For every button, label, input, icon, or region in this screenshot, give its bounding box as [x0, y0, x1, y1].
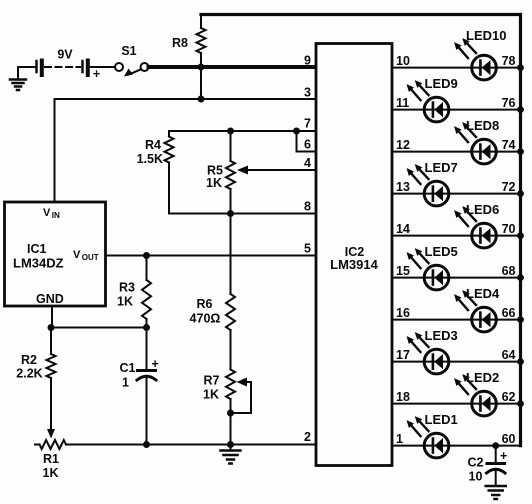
svg-text:70: 70	[502, 222, 516, 236]
junction LED bus row 62	[517, 400, 524, 407]
wire pin 10 LED row	[392, 67, 521, 69]
svg-text:LED4: LED4	[466, 286, 500, 301]
svg-text:C1: C1	[120, 361, 136, 375]
led LED4	[454, 286, 500, 332]
wire pin 12 LED row	[392, 151, 521, 153]
svg-text:LED1: LED1	[425, 412, 458, 427]
svg-text:V: V	[73, 249, 81, 261]
wire pin 13 LED row	[392, 193, 521, 195]
potentiometer R1 1K	[35, 440, 66, 480]
led LED8	[454, 118, 499, 164]
wire pin 18 LED row	[392, 403, 521, 405]
svg-text:1: 1	[122, 376, 129, 390]
svg-text:1.5K: 1.5K	[137, 152, 163, 166]
junction LED bus row 66	[517, 316, 524, 323]
svg-text:6: 6	[304, 138, 311, 152]
wire GND node line	[51, 327, 147, 329]
wire R5 wiper to pin 4	[237, 166, 316, 175]
svg-text:IC1: IC1	[27, 242, 47, 256]
svg-text:LED2: LED2	[466, 370, 499, 385]
switch S1	[115, 44, 149, 77]
svg-text:R3: R3	[119, 281, 135, 295]
junction pin3 line	[198, 96, 205, 103]
wire pin 16 LED row	[392, 319, 521, 321]
wire R2 wiper arrow to R1	[47, 429, 55, 439]
op-amp IC1 LM34DZ sensor box	[5, 202, 106, 306]
svg-text:LED8: LED8	[466, 118, 499, 133]
svg-text:2: 2	[304, 430, 311, 444]
svg-text:LED3: LED3	[425, 328, 458, 343]
led LED10	[454, 28, 506, 80]
resistor R2 2.2K	[16, 328, 55, 431]
led LED3	[407, 328, 458, 374]
svg-text:15: 15	[396, 264, 410, 278]
svg-text:12: 12	[396, 138, 410, 152]
junction LED bus row 78	[517, 64, 524, 71]
svg-text:16: 16	[396, 306, 410, 320]
led LED5	[407, 244, 458, 290]
wire bottom line to pin 2	[66, 444, 316, 446]
svg-text:60: 60	[502, 432, 516, 446]
led LED7	[407, 160, 458, 206]
svg-text:10: 10	[396, 54, 410, 68]
junction R5/R6 pin 8	[227, 210, 234, 217]
svg-text:LM34DZ: LM34DZ	[13, 256, 64, 271]
svg-text:68: 68	[502, 264, 516, 278]
svg-text:IN: IN	[52, 211, 60, 220]
ground (pin 2 / R7)	[221, 445, 241, 464]
svg-text:2.2K: 2.2K	[16, 367, 42, 381]
svg-text:LED10: LED10	[466, 28, 506, 43]
led LED2	[454, 370, 499, 416]
wire switch to IC2 pin 9 (V+)	[149, 65, 317, 69]
svg-text:1K: 1K	[203, 388, 219, 402]
wire pin 3 line	[55, 99, 317, 202]
op-amp IC2 LM3914 box	[316, 44, 392, 466]
svg-text:9V: 9V	[57, 48, 73, 62]
svg-text:LED5: LED5	[425, 244, 458, 259]
junction R7 bottom line	[227, 441, 234, 448]
wire pin 6 branch	[297, 131, 317, 152]
junction pin 6/7 branch	[293, 128, 300, 135]
resistor R4 1.5K	[137, 131, 174, 214]
wire pin 17 LED row	[392, 361, 521, 363]
svg-text:+: +	[152, 357, 159, 371]
svg-text:76: 76	[502, 96, 516, 110]
ground (battery negative)	[10, 67, 26, 90]
svg-text:R7: R7	[204, 374, 220, 388]
svg-text:R2: R2	[21, 353, 37, 367]
wire ground to battery	[18, 66, 35, 68]
junction R2 top	[48, 324, 55, 331]
wire IC1 GND down	[51, 306, 53, 328]
wire junction down to pin3 line	[200, 67, 202, 99]
wire pin 11 LED row	[392, 109, 521, 111]
svg-text:14: 14	[396, 222, 410, 236]
wire VOUT to pin 5	[106, 255, 317, 257]
wire battery to switch	[90, 66, 115, 68]
junction LED bus row 74	[517, 148, 524, 155]
junction R7 wiper	[227, 410, 234, 417]
svg-text:17: 17	[396, 348, 410, 362]
wire top rail	[201, 15, 521, 446]
capacitor C1 1 (electrolytic)	[120, 328, 159, 445]
svg-text:3: 3	[304, 86, 311, 100]
wire pin 14 LED row	[392, 235, 521, 237]
resistor R3 1K	[117, 256, 151, 328]
svg-text:R1: R1	[43, 452, 59, 466]
potentiometer R7 1K	[203, 370, 251, 445]
svg-text:LED9: LED9	[425, 76, 458, 91]
potentiometer R5 1K	[206, 131, 235, 214]
svg-text:V: V	[43, 207, 51, 219]
svg-text:74: 74	[502, 138, 516, 152]
svg-text:470Ω: 470Ω	[190, 312, 221, 326]
resistor R8	[172, 15, 205, 68]
svg-text:62: 62	[502, 390, 516, 404]
svg-text:1K: 1K	[43, 466, 59, 480]
svg-text:GND: GND	[36, 292, 64, 306]
svg-text:R4: R4	[145, 138, 161, 152]
svg-text:9: 9	[304, 54, 311, 68]
svg-text:4: 4	[304, 156, 311, 170]
wire pin 15 LED row	[392, 277, 521, 279]
ground (C2)	[486, 486, 506, 499]
junction LED bus row 64	[517, 358, 524, 365]
wire pin 7 line	[169, 130, 316, 132]
svg-text:10: 10	[469, 470, 483, 484]
svg-text:C2: C2	[468, 456, 484, 470]
junction R5 top	[227, 128, 234, 135]
svg-text:LM3914: LM3914	[330, 257, 378, 272]
svg-text:LED7: LED7	[425, 160, 458, 175]
svg-text:66: 66	[502, 306, 516, 320]
junction C2 top	[492, 442, 499, 449]
capacitor C2 10 (electrolytic)	[468, 446, 508, 485]
led LED6	[454, 202, 499, 248]
svg-text:13: 13	[396, 180, 410, 194]
junction R3/C1 node	[143, 324, 150, 331]
svg-text:S1: S1	[121, 44, 136, 58]
svg-text:LED6: LED6	[466, 202, 499, 217]
svg-text:+: +	[93, 67, 100, 81]
svg-text:18: 18	[396, 390, 410, 404]
svg-text:R6: R6	[197, 297, 213, 311]
resistor R6 470ohm	[190, 214, 235, 370]
svg-text:+: +	[500, 449, 507, 463]
wire pin 1 LED row	[392, 445, 521, 447]
svg-text:78: 78	[502, 54, 516, 68]
svg-text:R8: R8	[172, 36, 188, 50]
led LED9	[407, 76, 458, 122]
wire pin 8 line	[169, 213, 316, 215]
svg-text:1: 1	[396, 432, 403, 446]
svg-text:5: 5	[304, 242, 311, 256]
junction LED bus row 72	[517, 190, 524, 197]
svg-text:8: 8	[304, 200, 311, 214]
svg-text:64: 64	[502, 348, 516, 362]
junction C1 bottom	[143, 441, 150, 448]
svg-text:1K: 1K	[206, 176, 222, 190]
battery 9V	[37, 48, 101, 82]
junction LED bus row 76	[517, 106, 524, 113]
svg-text:1K: 1K	[117, 295, 133, 309]
svg-text:11: 11	[396, 96, 409, 110]
svg-text:OUT: OUT	[82, 253, 99, 262]
junction R3 top	[143, 252, 150, 259]
svg-text:72: 72	[502, 180, 516, 194]
junction LED bus row 70	[517, 232, 524, 239]
led LED1	[407, 412, 458, 458]
svg-text:7: 7	[304, 117, 311, 131]
junction R8/switch wire	[198, 64, 205, 71]
junction LED bus row 68	[517, 274, 524, 281]
